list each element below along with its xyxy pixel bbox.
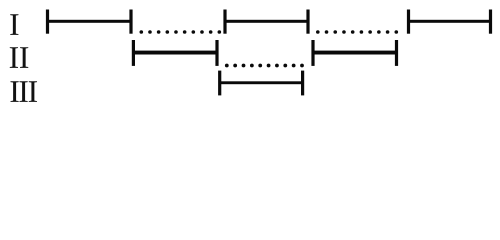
row I dotted segment 1 bbox=[140, 30, 222, 34]
row II label bbox=[10, 47, 28, 68]
row I interval bar 2 bbox=[223, 10, 309, 34]
row III label bbox=[10, 81, 37, 102]
row II dotted segment bbox=[225, 64, 304, 68]
row I dotted segment 2 bbox=[316, 30, 398, 34]
row II interval bar 2 bbox=[311, 40, 398, 66]
row III interval bar bbox=[218, 71, 304, 96]
row I interval bar 3 bbox=[407, 10, 492, 34]
row II interval bar 1 bbox=[132, 40, 219, 66]
row I interval bar 1 bbox=[46, 10, 133, 34]
row I label bbox=[10, 14, 18, 35]
